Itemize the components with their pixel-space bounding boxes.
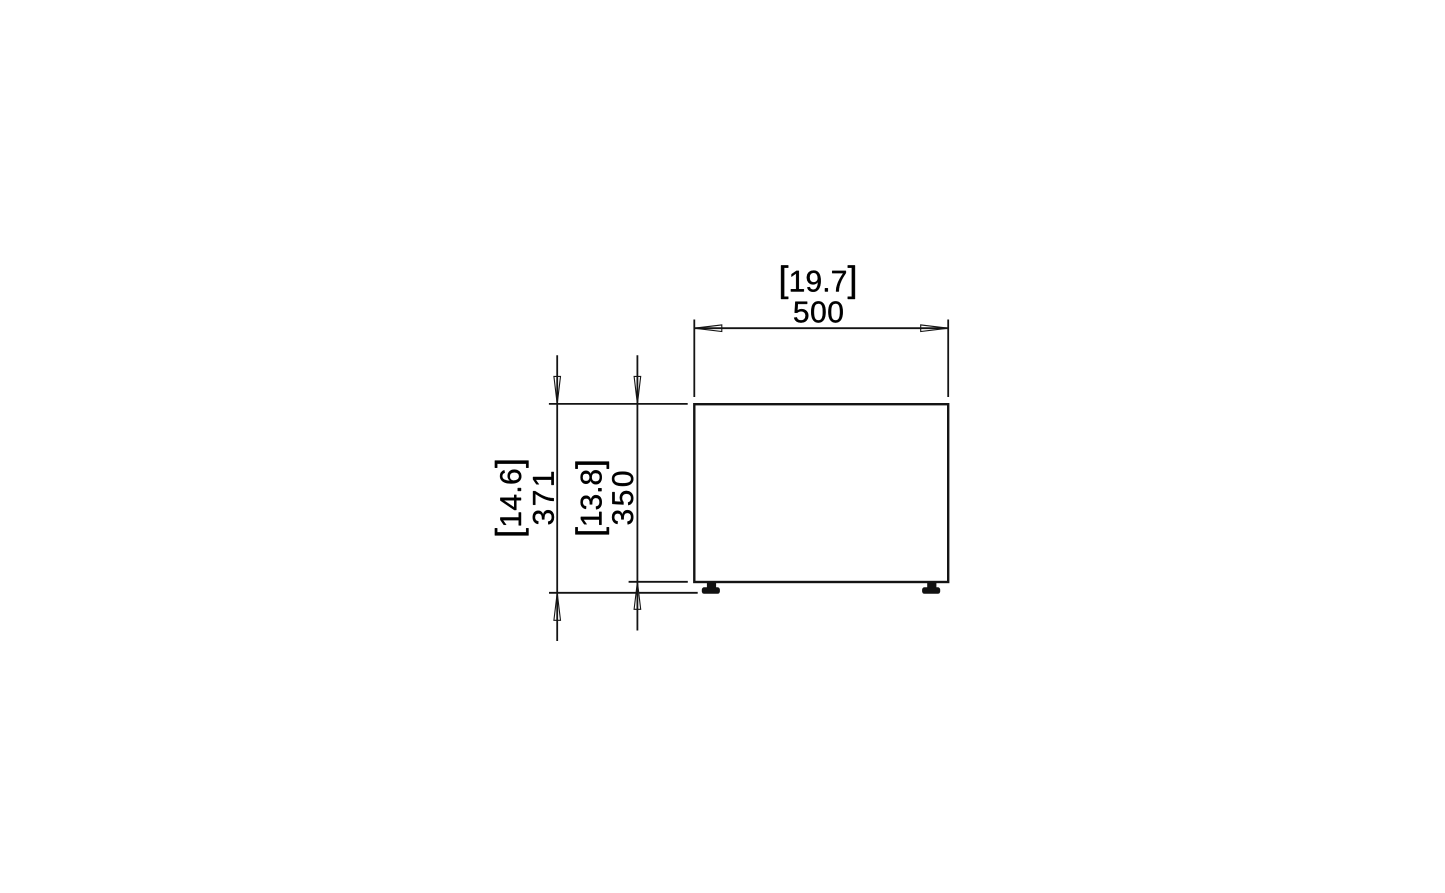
body height top arrowhead	[634, 376, 641, 404]
cabinet body outline	[694, 404, 948, 582]
body height bottom arrowhead	[634, 582, 641, 610]
width dim extension line right	[947, 320, 949, 398]
right adjustable foot	[922, 582, 940, 593]
body height dimension line (350)	[636, 355, 638, 630]
overall height label 371	[533, 472, 554, 524]
overall height bottom arrowhead	[554, 593, 561, 621]
body height label 350	[612, 472, 633, 525]
overall height top extension line	[549, 403, 688, 405]
overall height dimension line (371)	[556, 355, 558, 641]
width dim arrowhead right	[921, 325, 949, 332]
width dim label 500	[794, 301, 843, 322]
overall height top arrowhead	[554, 376, 561, 404]
left adjustable foot	[702, 582, 720, 593]
width dim label [19.7]	[781, 265, 855, 299]
width dim arrowhead left	[694, 325, 722, 332]
width dimension line (500)	[694, 327, 948, 329]
overall height bottom extension line	[549, 592, 698, 594]
body height bottom extension line	[629, 581, 688, 583]
width dim extension line left	[693, 320, 695, 398]
overall height label [14.6]	[495, 461, 529, 536]
body height label [13.8]	[575, 462, 609, 535]
